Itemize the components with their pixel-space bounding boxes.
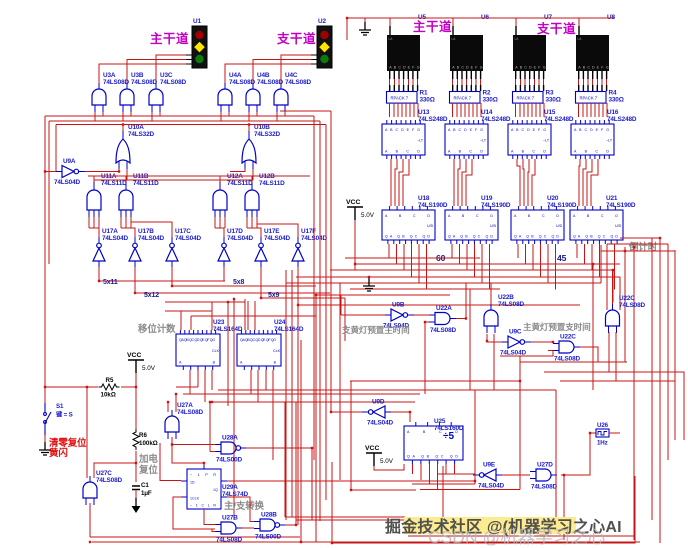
wire v x312 low	[311, 448, 313, 520]
wire R4 to decoder	[590, 103, 592, 117]
wire R2 to decoder	[472, 103, 474, 117]
AND gate U3A	[92, 83, 106, 112]
inverter U9E	[473, 469, 502, 481]
svg-text:74LS04D: 74LS04D	[138, 235, 164, 242]
svg-text:74LS04D: 74LS04D	[264, 235, 290, 242]
wire R2 seg pin	[452, 79, 454, 85]
wire U22C inB	[500, 351, 553, 357]
wire junction	[203, 462, 205, 464]
wire right bus v1	[600, 245, 602, 283]
svg-text:74LS08D: 74LS08D	[285, 79, 311, 86]
inverter U17D	[218, 237, 230, 267]
wire junction	[135, 386, 137, 388]
wire R3 seg pin	[515, 79, 517, 85]
wire U22C2 inA down	[608, 332, 610, 372]
wire U27B out	[242, 527, 254, 529]
wire counters rail 1	[345, 257, 480, 259]
wire counters rail 2	[355, 263, 620, 265]
decoder U15	[508, 120, 551, 159]
wire mid bus v10	[350, 381, 352, 490]
AND gate U4A	[218, 83, 232, 112]
svg-text:74LS04D: 74LS04D	[367, 420, 393, 427]
7-segment display U5	[387, 35, 420, 71]
svg-text:U3B: U3B	[131, 72, 144, 79]
wire junction	[354, 263, 356, 265]
wire mid bus v7	[330, 111, 332, 412]
svg-text:74LS08D: 74LS08D	[498, 301, 524, 308]
wire U9B out	[414, 314, 429, 316]
wire into U9B	[341, 314, 385, 316]
wire junction	[519, 380, 521, 382]
wire counters rail 5	[286, 282, 601, 284]
wire junction	[315, 294, 317, 296]
wire U11A input	[93, 217, 95, 228]
wire R1 seg pin	[389, 79, 391, 85]
wire y484	[412, 483, 475, 485]
svg-text:74LS04D: 74LS04D	[478, 483, 504, 490]
wire U24 pin down 3	[265, 370, 267, 390]
wire U22B inB down	[493, 334, 495, 390]
svg-text:U22B: U22B	[498, 294, 514, 301]
wire U27C out down	[89, 503, 91, 537]
svg-text:74LS248D: 74LS248D	[544, 116, 574, 123]
wire junction	[409, 411, 411, 413]
wire R1 seg pin	[403, 79, 405, 85]
svg-text:A B C D E F G: A B C D E F G	[574, 128, 609, 132]
wire U22A inB stub	[425, 321, 429, 323]
wire R2 to decoder	[460, 103, 462, 117]
wire junction	[233, 298, 235, 300]
wire U25 pin down	[420, 464, 422, 480]
wire R1 to decoder	[401, 103, 403, 117]
shift register U23	[176, 330, 220, 370]
wire U16 to U21 bit0	[579, 159, 580, 206]
wire R2 seg pin	[466, 79, 468, 85]
svg-text:U9B: U9B	[392, 302, 405, 309]
NAND gate U28B	[254, 519, 286, 531]
shift register U24	[237, 330, 281, 370]
wire U27A inA	[167, 402, 169, 412]
wire h y311	[165, 310, 212, 312]
svg-text:U15: U15	[544, 109, 556, 116]
wire junction	[330, 411, 332, 413]
wire U18 pin down	[418, 244, 420, 283]
wire right bus v8	[659, 238, 661, 543]
svg-text:U20: U20	[547, 195, 559, 202]
svg-text:QA QB QC QD: QA QB QC QD	[573, 235, 618, 239]
svg-text:74LS11D: 74LS11D	[101, 180, 127, 187]
wire junction	[171, 443, 173, 445]
wire U27A inB	[175, 394, 177, 412]
svg-text:74LS248D: 74LS248D	[607, 116, 637, 123]
svg-text:74LS08D: 74LS08D	[229, 79, 255, 86]
wire junction	[592, 263, 594, 265]
wire U20 pin down	[540, 244, 542, 277]
AND gate U22A	[429, 313, 456, 325]
wire R2 to decoder	[468, 103, 470, 117]
wire U3C input B	[159, 112, 161, 116]
wire jog U17F	[257, 224, 298, 237]
svg-text:主干道: 主干道	[150, 31, 189, 46]
wire S1 to gnd	[44, 435, 46, 444]
wire U18 pin down	[388, 244, 390, 258]
wire v x475	[474, 390, 476, 484]
svg-text:R2: R2	[483, 90, 491, 97]
traffic light U1	[192, 26, 207, 68]
wire U20 pin down	[555, 244, 557, 290]
wire R3 seg pin	[524, 79, 526, 85]
wire v x285	[284, 402, 286, 517]
wire into U9B v	[340, 295, 342, 315]
svg-text:~LT: ~LT	[606, 139, 613, 143]
svg-text:G: G	[543, 66, 546, 70]
AND gate U22C (2)	[606, 304, 620, 333]
wire 5x12 rail	[135, 276, 330, 293]
wire into U9A	[45, 171, 56, 173]
svg-text:RPACK 7: RPACK 7	[517, 95, 535, 100]
wire mid bus v5	[319, 121, 321, 521]
wire U25 pin down	[445, 464, 447, 474]
wire U17C input from below	[171, 267, 173, 276]
wire v x520	[519, 356, 521, 490]
wire junction	[297, 304, 299, 306]
wire jog U11A	[89, 227, 99, 229]
ground (mid)	[363, 278, 375, 291]
wire R4 to decoder	[606, 103, 608, 117]
svg-text:5x12: 5x12	[144, 292, 159, 299]
svg-text:74LS08D: 74LS08D	[430, 327, 456, 334]
svg-text:U17B: U17B	[138, 228, 154, 235]
wire R1 to decoder	[409, 103, 411, 117]
wire R1 to decoder	[393, 103, 395, 117]
wire right h y372	[544, 372, 684, 440]
counter U25	[404, 422, 463, 464]
wire U15 to U20 bit1	[523, 159, 524, 206]
svg-text:支干道: 支干道	[276, 31, 316, 46]
wire U13 to U18 bit2	[399, 159, 403, 206]
wire U19 pin down	[466, 244, 468, 271]
wire right bus v0	[592, 264, 594, 390]
wire U10B in A	[230, 169, 245, 172]
resistor pack R3	[513, 92, 544, 104]
inverter U17B	[129, 237, 141, 267]
wire vcc down	[354, 220, 356, 270]
wire rail y305	[298, 276, 580, 305]
svg-text:74LS08D: 74LS08D	[216, 537, 242, 544]
wire junction	[227, 301, 229, 303]
wire U3C input A	[151, 112, 153, 121]
svg-text:A B C D E F G: A B C D E F G	[448, 128, 483, 132]
wire U17D in	[223, 276, 225, 281]
wire R4 seg pin	[606, 79, 608, 85]
wire R3 to decoder	[531, 103, 533, 117]
resistor R5	[99, 384, 120, 390]
svg-text:U10B: U10B	[254, 124, 270, 131]
svg-text:R6: R6	[139, 432, 147, 439]
7-segment display U6	[450, 35, 483, 71]
ground (S1)	[39, 442, 51, 455]
svg-text:U3A: U3A	[103, 72, 116, 79]
wire U23 pin down 3	[204, 370, 206, 402]
wire U14 to U19 bit1	[458, 159, 460, 206]
svg-text:74LS248D: 74LS248D	[481, 116, 511, 123]
wire right bus v9	[667, 244, 669, 460]
svg-text:U10A: U10A	[128, 124, 144, 131]
svg-text:5.0V: 5.0V	[361, 212, 375, 219]
wire to S1	[44, 387, 46, 403]
wire h y517	[285, 516, 405, 518]
wire U19 pin down	[481, 244, 483, 283]
svg-text:复位: 复位	[138, 464, 158, 476]
svg-text:R1: R1	[420, 90, 428, 97]
wire right jog 2	[607, 243, 668, 245]
wire x87 down to U27C	[86, 387, 88, 478]
wire counters rail 7	[316, 294, 450, 296]
wire U23 pin down 4	[211, 370, 213, 390]
wire R1 to decoder	[417, 103, 419, 117]
wire junction	[424, 321, 426, 323]
wire R1 seg pin	[393, 79, 395, 85]
AND gate U3C	[149, 83, 163, 112]
wire U3 output to U1	[156, 55, 186, 83]
wire R5 to R6 node	[121, 386, 136, 388]
wire U15 to U20 bit3	[532, 159, 535, 206]
wire U12A input	[224, 217, 226, 228]
wire junction	[486, 340, 488, 342]
wire C1 to gnd	[135, 490, 137, 501]
wire U28A out	[246, 447, 312, 449]
resistor pack R1	[387, 92, 418, 104]
svg-text:74LS08D: 74LS08D	[619, 302, 645, 309]
svg-text:C: C	[587, 66, 590, 70]
wire R3 to decoder	[543, 103, 545, 117]
wire mid bus v8	[339, 283, 341, 480]
wire rail y121	[49, 120, 320, 122]
wire U4 output to U2	[225, 64, 311, 83]
ground (top right)	[359, 22, 371, 35]
svg-text:S1: S1	[56, 403, 64, 410]
wire jog U12A	[215, 228, 224, 237]
wire U10B output up	[248, 125, 250, 132]
wire U23 riser c	[190, 316, 192, 330]
7-segment display U7	[513, 35, 546, 71]
wire U9A out	[85, 171, 119, 173]
wire U12B input	[251, 217, 253, 228]
wire U13 to U18 bit0	[390, 159, 392, 206]
svg-text:74LS00D: 74LS00D	[255, 534, 281, 541]
svg-text:U27C: U27C	[96, 470, 112, 477]
wire R4 seg pin	[578, 79, 580, 85]
wire U4B input A	[248, 112, 250, 121]
wire U22B out up	[490, 283, 492, 304]
svg-text:1CLK: 1CLK	[190, 497, 200, 501]
svg-text:45: 45	[557, 253, 567, 263]
wire U22C2 inB down	[615, 332, 617, 381]
wire U4A input B	[228, 112, 230, 116]
wire R2 seg pin	[470, 79, 472, 85]
svg-text:U/D: U/D	[615, 224, 622, 228]
clock source U26	[596, 429, 609, 437]
wire U4C input A	[276, 112, 278, 121]
svg-text:主干道: 主干道	[413, 19, 452, 34]
wire U10A output up	[122, 125, 124, 132]
counter U18	[382, 206, 435, 244]
wire U4 output to U2	[253, 60, 311, 84]
svg-text:330Ω: 330Ω	[546, 97, 561, 104]
wire rail y116	[45, 115, 314, 117]
wire junction	[248, 123, 250, 125]
wire jog U17C	[131, 222, 172, 237]
svg-text:~LT: ~LT	[480, 139, 487, 143]
wire U24 pin down 2	[257, 370, 259, 402]
wire R3 seg pin	[519, 79, 521, 85]
wire junction	[175, 393, 177, 395]
wire rail y286	[172, 276, 316, 286]
wire v x228	[227, 302, 229, 406]
svg-text:键 = S: 键 = S	[55, 411, 73, 419]
svg-text:CSDN @机器学习之心: CSDN @机器学习之心	[428, 527, 605, 547]
wire U21 pin down	[576, 244, 578, 258]
svg-text:VCC: VCC	[127, 352, 141, 359]
wire U20 pin down	[547, 244, 549, 283]
wire left vertical x49	[48, 121, 50, 264]
AND gate U4C	[274, 83, 288, 112]
wire right h y381	[560, 380, 675, 382]
svg-text:U/D: U/D	[556, 224, 563, 228]
svg-text:QA QB QC QD: QA QB QC QD	[448, 235, 493, 239]
wire U22C out	[580, 347, 598, 362]
wire v x234	[233, 299, 235, 520]
svg-text:74LS164D: 74LS164D	[274, 326, 304, 333]
svg-text:U1: U1	[193, 18, 201, 25]
wire v x556	[555, 390, 557, 520]
wire mid bus v2	[297, 277, 299, 525]
wire U18 pin down	[426, 244, 428, 290]
wire U16 to U21 bit3	[591, 159, 598, 206]
svg-text:74LS190D: 74LS190D	[418, 202, 448, 209]
wire U29A Qbar to U28B	[227, 497, 254, 522]
wire display supply drop	[515, 18, 517, 26]
inverter U17E	[255, 237, 267, 267]
svg-text:RPACK 7: RPACK 7	[580, 95, 598, 100]
wire R3 to decoder	[515, 103, 517, 117]
wire R1 seg pin	[412, 79, 414, 85]
AND gate U22C	[553, 341, 580, 353]
svg-text:U9A: U9A	[63, 158, 76, 165]
wire to R5	[45, 386, 98, 388]
wire display supply drop	[389, 18, 391, 26]
wire U22B inA down	[486, 334, 488, 341]
svg-text:74LS04D: 74LS04D	[175, 235, 201, 242]
wire U10A in B	[126, 169, 128, 180]
svg-text:100kΩ: 100kΩ	[139, 440, 158, 447]
AND gate U3B	[120, 83, 134, 112]
wire U24 pin down 1	[250, 370, 252, 394]
svg-text:÷5: ÷5	[443, 431, 454, 442]
svg-text:U4C: U4C	[285, 72, 298, 79]
wire U11B input	[120, 217, 122, 228]
wire mid bus v0	[285, 270, 287, 520]
wire h y394	[183, 393, 420, 395]
wire U21 pin down	[584, 244, 586, 264]
wire R4 to decoder	[586, 103, 588, 117]
wire top rail left drop	[346, 18, 348, 40]
wire U11B input	[125, 217, 127, 228]
wire U17D input from below	[223, 267, 225, 276]
wire h y302	[165, 301, 245, 303]
inverter U17F	[292, 237, 304, 267]
resistor pack R2	[450, 92, 481, 104]
wire junction	[442, 519, 444, 521]
wire h y316	[191, 315, 316, 317]
wire U25 to U9E	[438, 473, 475, 475]
wire junction	[300, 541, 302, 543]
wire junction	[612, 269, 614, 271]
AND3 gate U11A	[87, 182, 101, 217]
wire R2 seg pin	[480, 79, 482, 85]
svg-text:A B C D E F G: A B C D E F G	[385, 128, 420, 132]
wire R2 to decoder	[452, 103, 454, 117]
wire v x564	[563, 475, 565, 540]
wire top rail	[347, 17, 614, 19]
svg-text:74LS32D: 74LS32D	[254, 131, 280, 138]
wire R1 to decoder	[389, 103, 391, 117]
wire U27B inB	[212, 529, 215, 532]
svg-text:R4: R4	[609, 90, 617, 97]
wire U9D out left	[331, 411, 362, 413]
svg-text:U24: U24	[274, 319, 286, 326]
wire U13 to U18 bit3	[403, 159, 409, 206]
wire junction	[211, 401, 213, 403]
wire U23 pin down 1	[189, 370, 191, 394]
svg-text:D: D	[403, 66, 406, 70]
wire mid bus v3	[313, 116, 315, 460]
wire R4 seg pin	[587, 79, 589, 85]
wire U14 to U19 bit2	[462, 159, 466, 206]
svg-text:主黄灯预置支时间: 主黄灯预置支时间	[523, 321, 591, 332]
wire R1 to decoder	[405, 103, 407, 117]
wire junction	[563, 474, 565, 476]
wire R3 seg pin	[529, 79, 531, 85]
wire U9C out	[531, 341, 553, 343]
wire U24 riser b	[247, 301, 249, 330]
AND3 gate U12B	[245, 182, 259, 217]
svg-text:C: C	[461, 66, 464, 70]
wire R2 to decoder	[464, 103, 466, 117]
wire U17B input from below	[134, 267, 136, 276]
wire junction	[167, 401, 169, 403]
svg-text:U9E: U9E	[483, 462, 496, 469]
wire junction	[89, 541, 91, 543]
wire U19 pin down	[459, 244, 461, 264]
wire R2 to decoder	[456, 103, 458, 117]
wire rail y537	[90, 536, 300, 538]
wire U10A in A	[118, 169, 120, 172]
decoder U14	[445, 120, 488, 159]
svg-text:黄闪: 黄闪	[49, 447, 68, 459]
svg-text:C1: C1	[141, 482, 149, 489]
svg-text:74LS04D: 74LS04D	[227, 235, 253, 242]
wire junction	[552, 341, 554, 343]
wire U15 to U20 bit0	[517, 159, 520, 206]
OR gate U10A	[116, 131, 130, 169]
decoder U13	[382, 120, 425, 159]
svg-text:330Ω: 330Ω	[483, 97, 498, 104]
wire junction	[368, 276, 370, 278]
wire U16 to U21 bit2	[587, 159, 592, 206]
svg-text:QA QB QC QD QE QF QG: QA QB QC QD QE QF QG	[179, 338, 215, 342]
wire vcc2 to U25	[374, 464, 404, 470]
